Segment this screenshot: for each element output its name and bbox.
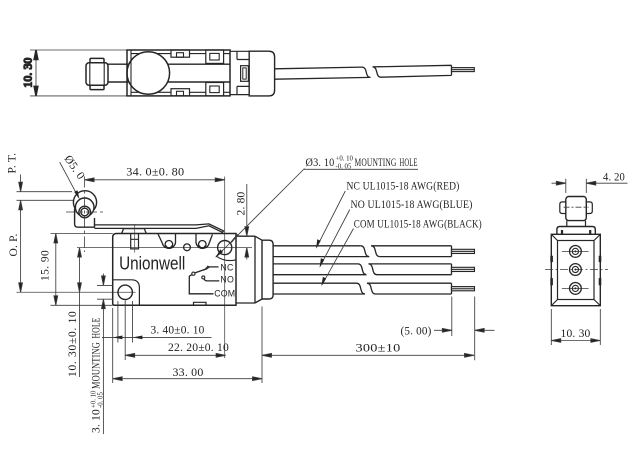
corner pocket arc	[216, 256, 236, 261]
roller horizontal center line	[66, 211, 103, 213]
pin inner circle	[81, 208, 89, 216]
svg-text:(5. 00): (5. 00)	[401, 325, 432, 337]
roller center line (front view)	[564, 206, 589, 208]
contact schematic: NC branch	[205, 267, 218, 270]
terminal tick lines	[562, 251, 589, 288]
dim (5.00)	[434, 329, 495, 331]
latch window (top view)	[241, 66, 249, 82]
svg-text:+0. 10: +0. 10	[336, 156, 354, 163]
svg-text:34. 0±0. 80: 34. 0±0. 80	[126, 167, 184, 179]
bracket boss circle	[75, 198, 94, 217]
wire NC bare tip	[452, 249, 475, 253]
svg-text:22. 20±0. 10: 22. 20±0. 10	[168, 342, 229, 354]
dim 300±10	[262, 354, 474, 356]
svg-text:COM: COM	[214, 288, 235, 298]
wire COM (main view)	[273, 283, 451, 294]
dim 4.20 (front view)	[566, 179, 587, 193]
plunger channel	[131, 234, 139, 249]
bottom hole center line (horizontal)	[17, 291, 136, 293]
svg-text:MOUNTING: MOUNTING	[91, 342, 103, 389]
svg-text:10. 30: 10. 30	[561, 328, 591, 340]
label COM wire	[322, 229, 354, 285]
dim 33.00	[113, 378, 262, 380]
dim O.P.	[20, 200, 22, 292]
ear 2	[196, 234, 212, 249]
roller circle	[73, 191, 96, 214]
body outline (top view)	[127, 50, 230, 96]
middle center line	[545, 269, 608, 271]
end cap (main view)	[262, 240, 273, 299]
pin outer circle	[79, 206, 91, 218]
wire bare tip (top view)	[452, 68, 475, 72]
dim 10.30 extension line bottom (top view)	[30, 95, 127, 97]
dim 22.20±0.10	[125, 354, 225, 356]
dim P.T.	[20, 175, 22, 212]
wire NO (main view)	[273, 264, 451, 275]
roller right pin cap	[586, 202, 592, 214]
roller (front view)	[566, 197, 587, 221]
label NO wire	[320, 210, 350, 267]
FP reference line	[17, 191, 73, 193]
svg-text:NC: NC	[220, 262, 234, 272]
svg-text:15. 90: 15. 90	[40, 250, 52, 281]
dim 3.10 mounting hole (left vertical)	[97, 285, 113, 299]
svg-text:-0. 05: -0. 05	[336, 164, 352, 171]
wire NC (main view)	[273, 246, 451, 257]
clip 1 bottom (top view)	[171, 89, 190, 96]
body left inner line (top view)	[130, 50, 132, 96]
roller (top view)	[86, 63, 108, 85]
clip 1 top (top view)	[171, 50, 190, 57]
wire NO bare tip	[452, 267, 475, 271]
svg-text:P. T.: P. T.	[6, 153, 18, 174]
dim 34.0±0.80	[85, 179, 225, 181]
end cap (top view)	[249, 51, 274, 96]
terminal 1	[570, 246, 582, 258]
dim Ø5.0 leader	[60, 162, 79, 198]
pocket slant near hole	[231, 235, 238, 243]
dim 10.30 (front view)	[551, 309, 600, 345]
dim 2.80	[246, 184, 248, 260]
svg-text:NO: NO	[220, 275, 234, 285]
bottom-left mounting hole	[118, 285, 132, 299]
svg-text:NC UL1015-18 AWG(RED): NC UL1015-18 AWG(RED)	[347, 181, 460, 193]
OP reference line	[17, 199, 77, 201]
ext lines below body	[113, 297, 475, 384]
wire (top view) with break	[275, 65, 452, 79]
body outer (front view)	[551, 234, 600, 305]
roller bracket	[75, 209, 95, 228]
side notch marks	[552, 256, 600, 285]
ear 1	[158, 234, 176, 249]
svg-text:10. 30: 10. 30	[23, 57, 35, 87]
svg-text:Ø3. 10: Ø3. 10	[306, 157, 335, 169]
svg-text:MOUNTING: MOUNTING	[355, 157, 397, 169]
contact schematic: COM pole	[189, 275, 213, 294]
dim line 10.30 (top view, vertical)	[35, 50, 37, 96]
post center line	[134, 224, 136, 253]
svg-text:3. 10: 3. 10	[91, 409, 103, 433]
clip 2 bottom (top view)	[206, 83, 224, 96]
small circle between ears	[184, 244, 191, 251]
bottom notch	[194, 302, 207, 305]
svg-text:Unionwell: Unionwell	[119, 253, 185, 273]
terminal 3	[570, 283, 582, 295]
lever	[95, 224, 224, 232]
roller top tab (top view)	[90, 58, 104, 62]
svg-text:-0. 05: -0. 05	[97, 392, 104, 408]
lever bracket (front view)	[567, 221, 586, 227]
svg-text:33. 00: 33. 00	[173, 367, 204, 379]
dim 10.30±0.10 (left vertical)	[79, 248, 81, 377]
dim 15.90	[51, 234, 113, 306]
lever bar (front view)	[557, 227, 595, 235]
dim 3.40±0.10	[102, 336, 211, 338]
terminal 2	[570, 264, 582, 276]
plunger circle (top view)	[127, 52, 170, 95]
bevel corners (front view)	[551, 234, 600, 305]
svg-text:HOLE: HOLE	[400, 157, 418, 169]
ext line through right hole (vertical)	[224, 177, 226, 359]
label Ø3.10 mounting hole	[304, 168, 418, 170]
svg-text:2. 80: 2. 80	[236, 191, 248, 215]
right flange (top view)	[230, 51, 249, 94]
top hole center line (horizontal)	[77, 247, 252, 249]
roller vertical center line	[84, 177, 86, 253]
roller bottom tab (top view)	[90, 85, 104, 89]
svg-text:O. P.: O. P.	[8, 233, 20, 256]
T-post cap	[122, 229, 147, 234]
svg-text:300±10: 300±10	[356, 342, 401, 354]
body outline (main view)	[113, 234, 236, 306]
body inner edge lines (top view)	[131, 54, 230, 93]
svg-text:4. 20: 4. 20	[603, 171, 625, 183]
wire COM bare tip	[452, 287, 475, 291]
lever arm lines (top view)	[108, 64, 230, 82]
svg-text:HOLE: HOLE	[91, 318, 103, 339]
contact schematic: moving arm	[195, 269, 208, 273]
bottom-left mounting boss inner line	[113, 280, 140, 306]
svg-text:10. 30±0. 10: 10. 30±0. 10	[67, 311, 79, 377]
clip 2 top (top view)	[206, 50, 224, 63]
svg-text:NO UL1015-18 AWG(BLUE): NO UL1015-18 AWG(BLUE)	[351, 199, 473, 211]
top-right mounting hole	[218, 241, 232, 255]
svg-text:3. 40±0. 10: 3. 40±0. 10	[151, 325, 205, 337]
label NC wire	[317, 191, 346, 247]
dim 10.30 extension line top (top view)	[30, 49, 127, 51]
right flange (main view)	[236, 236, 262, 303]
contact schematic: NO branch	[202, 276, 205, 279]
body inner (front view)	[558, 241, 595, 300]
roller left pin cap	[560, 202, 566, 214]
svg-text:COM UL1015-18 AWG(BLACK): COM UL1015-18 AWG(BLACK)	[354, 218, 482, 230]
